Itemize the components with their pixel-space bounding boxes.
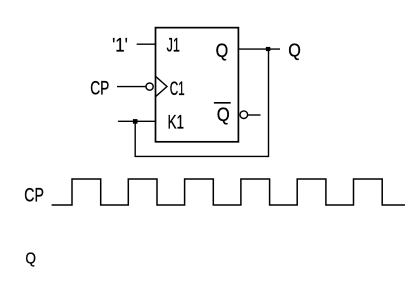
stub wire from Q-bar bubble xyxy=(248,114,261,116)
svg-text:'1': '1' xyxy=(112,35,128,57)
wire K input xyxy=(118,120,156,122)
junction on Q output wire xyxy=(266,47,270,51)
svg-text:K1: K1 xyxy=(168,111,185,133)
svg-text:Q: Q xyxy=(217,104,230,126)
feedback wire Q to K xyxy=(135,49,268,156)
wire Q output xyxy=(238,48,280,50)
svg-text:CP: CP xyxy=(90,77,109,99)
inversion bubble on Q-bar output xyxy=(240,111,248,119)
svg-text:CP: CP xyxy=(24,186,44,207)
wire CP to clock bubble xyxy=(117,86,146,88)
svg-text:C1: C1 xyxy=(170,78,185,100)
JK flip-flop U1 body xyxy=(156,28,239,142)
svg-text:Q: Q xyxy=(216,41,229,62)
svg-text:J1: J1 xyxy=(167,35,180,57)
CP clock waveform xyxy=(52,179,405,205)
inversion bubble on clock input xyxy=(146,83,153,90)
svg-text:Q: Q xyxy=(288,40,301,61)
overbar of Q-bar xyxy=(214,102,231,104)
svg-text:Q: Q xyxy=(25,251,36,268)
wire '1' to J input xyxy=(137,43,157,45)
dynamic (edge-trigger) triangle on C1 xyxy=(156,76,168,96)
junction on K wire xyxy=(133,119,138,124)
